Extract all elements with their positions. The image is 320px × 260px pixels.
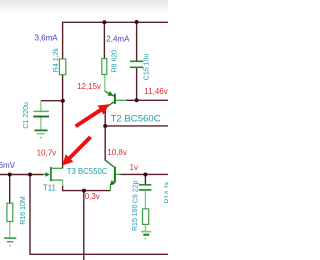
svg-text:T2 BC560C: T2 BC560C xyxy=(111,113,161,124)
svg-text:10,8v: 10,8v xyxy=(107,148,127,157)
svg-text:C15 10u: C15 10u xyxy=(143,54,150,81)
svg-text:0,3v: 0,3v xyxy=(85,192,100,201)
svg-text:11,46v: 11,46v xyxy=(144,87,167,96)
svg-text:T11: T11 xyxy=(43,184,56,193)
svg-text:2,4mA: 2,4mA xyxy=(106,34,130,43)
svg-text:R14 1k: R14 1k xyxy=(165,181,169,204)
svg-text:C1 220u: C1 220u xyxy=(23,102,30,129)
svg-text:3,6mA: 3,6mA xyxy=(35,34,59,43)
svg-text:C9 22p: C9 22p xyxy=(133,181,140,204)
svg-text:1v: 1v xyxy=(130,163,138,172)
svg-text:T3 BC550C: T3 BC550C xyxy=(67,167,108,176)
svg-text:12,15v: 12,15v xyxy=(77,82,101,91)
svg-text:10,7v: 10,7v xyxy=(37,148,57,157)
svg-text:R15 180: R15 180 xyxy=(132,204,139,231)
svg-text:6mV: 6mV xyxy=(0,161,16,170)
svg-text:R16 10M: R16 10M xyxy=(20,196,27,225)
svg-text:R8 620: R8 620 xyxy=(112,50,119,73)
svg-text:R4 1,2k: R4 1,2k xyxy=(53,48,60,73)
